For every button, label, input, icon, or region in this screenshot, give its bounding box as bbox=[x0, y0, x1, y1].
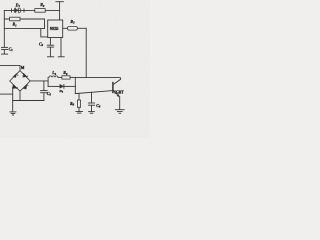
ground pin1 bbox=[48, 56, 54, 58]
wire AC2 bbox=[1, 93, 13, 95]
wire collector feed bbox=[75, 78, 120, 85]
ground left rail bbox=[2, 53, 8, 55]
wire bridge right to combo bbox=[30, 80, 48, 82]
capacitor C5 bbox=[41, 91, 48, 93]
wire bridge top stub bbox=[19, 66, 21, 71]
transistor Q1 bbox=[113, 83, 120, 110]
ground C8 bbox=[89, 112, 95, 114]
wire pin1 down bbox=[49, 47, 51, 56]
wire top branch bbox=[58, 76, 62, 78]
ground emitter bbox=[115, 110, 124, 114]
wire bottom branch right bbox=[64, 85, 75, 87]
wire R1 line bbox=[4, 18, 44, 20]
wire C5 branch bbox=[43, 81, 45, 90]
capacitor C8 bbox=[88, 92, 94, 111]
wire top bus bbox=[4, 9, 59, 11]
wire base line bbox=[75, 91, 112, 94]
wire rail below C1 bbox=[3, 50, 5, 54]
wire left rail bbox=[3, 10, 5, 47]
op-amp U1 box bbox=[48, 20, 63, 38]
capacitor C2 bbox=[47, 45, 53, 47]
wire R3 to rail bbox=[77, 27, 86, 29]
ground R8 bbox=[76, 112, 83, 114]
wire bridge bottom stub bbox=[19, 91, 21, 100]
wire AC2 drop bbox=[12, 88, 14, 112]
node right combo bar bbox=[74, 77, 76, 86]
wire box right pin bbox=[63, 27, 68, 29]
wire bottom branch bbox=[48, 85, 60, 87]
capacitor C1 bbox=[2, 47, 8, 49]
ground bottom-left bbox=[10, 112, 16, 115]
wire third line bbox=[4, 28, 44, 30]
wire box pin2 bbox=[60, 38, 62, 57]
wire top branch right bbox=[70, 76, 75, 78]
wire rail down bbox=[85, 28, 87, 77]
paper noise bbox=[0, 0, 150, 138]
V+ terminal bbox=[56, 1, 63, 3]
wire bottom bus bbox=[13, 100, 44, 102]
resistor R1 bbox=[10, 17, 20, 21]
wire jog to box bbox=[41, 29, 48, 37]
wire base drop bbox=[74, 86, 76, 93]
node left combo bar bbox=[47, 77, 49, 86]
wire AC1 bbox=[1, 65, 21, 67]
inductor L4 bbox=[49, 76, 58, 78]
wire V+ rail bbox=[59, 2, 61, 20]
resistor R2 bbox=[35, 9, 45, 13]
wire node drop bbox=[44, 19, 46, 29]
resistor R6 bbox=[62, 76, 70, 79]
diode D1 bbox=[12, 8, 25, 13]
bridge rectifier bbox=[10, 71, 31, 92]
diode D5 bbox=[60, 85, 64, 89]
resistor R3 bbox=[68, 27, 78, 31]
ground pin2 bbox=[58, 56, 64, 58]
wire box pin1 bbox=[49, 38, 51, 46]
wire C5 down bbox=[43, 93, 45, 101]
resistor R8 bbox=[77, 93, 80, 111]
